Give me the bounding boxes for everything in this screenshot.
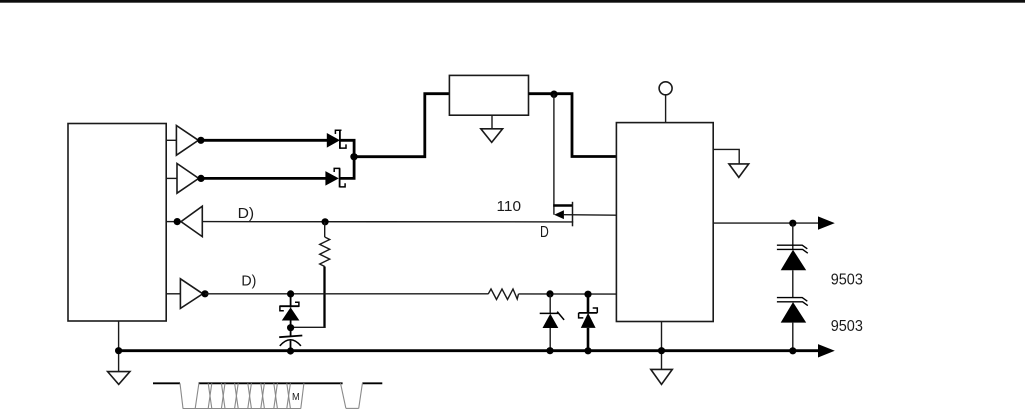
transistor Q2 arrow: [325, 171, 338, 186]
svg-text:9503: 9503: [831, 318, 863, 335]
zener D4 lead top: [587, 294, 590, 313]
node dot D4 on ground rail: [584, 347, 591, 354]
ground under module box: [481, 129, 503, 143]
transistor Q1 lower hook: [340, 144, 346, 148]
zener D4 lead bottom: [587, 328, 590, 351]
node dot A2 output: [197, 175, 204, 182]
wire to node K1: [291, 326, 326, 328]
svg-text:M: M: [292, 391, 300, 403]
node dot output: [789, 220, 796, 227]
wire U2 to right ground: [713, 149, 739, 164]
resistor R1: [320, 237, 330, 267]
waveform top line segment 2: [199, 382, 343, 384]
node J1: [350, 153, 357, 160]
diode D3 cathode bar: [540, 312, 559, 314]
buffer A1: [176, 126, 198, 156]
zener D4 anode triangle: [581, 313, 596, 328]
node dot D3 on ground rail: [546, 347, 553, 354]
node dot at diode D3: [546, 290, 553, 297]
zener Z1 lead bottom: [290, 321, 292, 328]
wire module box to U2 supply pin: [529, 94, 617, 157]
svg-text:9503: 9503: [831, 271, 863, 288]
zener D4 left hook: [579, 313, 584, 318]
ground rail: [119, 349, 819, 352]
wire U1 to buffer A4: [166, 293, 180, 295]
waveform top line segment 3: [362, 382, 382, 384]
wire J2 down to Q3: [553, 94, 555, 215]
wire A4 output net: [205, 293, 489, 295]
svg-text:D): D): [241, 272, 256, 289]
page header rule (top bar): [0, 0, 1025, 3]
resistor R2: [488, 289, 518, 300]
waveform falling edge 3: [341, 383, 346, 408]
wire D6 to ground rail: [792, 323, 794, 351]
node dot rail right: [789, 347, 796, 354]
transistor Q1 bar: [339, 130, 341, 149]
wire module box to ground: [491, 115, 493, 129]
wire U1 to ground rail: [118, 321, 120, 371]
wire Q2 drain to node J1: [340, 157, 355, 178]
waveform falling edge 1: [180, 383, 183, 408]
capacitor C1 curved plate: [280, 340, 301, 346]
node dot at zener D4: [584, 291, 591, 298]
ground left: [108, 372, 130, 385]
wire U1 to buffer A2: [166, 177, 177, 179]
node J2: [550, 91, 557, 98]
node dot A4 output: [201, 290, 208, 297]
waveform bottom line segment 2: [346, 407, 359, 409]
ground under U2: [651, 369, 673, 384]
transistor Q3 top bar: [553, 204, 572, 206]
zener Z1 lead top: [290, 294, 292, 308]
wire A1 to Q1 gate: [201, 139, 327, 142]
diode D3 lead bottom: [549, 328, 551, 351]
waveform rising edge 1: [195, 383, 199, 408]
node dot C1 on ground rail: [287, 347, 294, 354]
node dot rail under U2: [658, 347, 665, 354]
buffer A2: [177, 164, 199, 194]
wire output to D5: [792, 223, 794, 249]
arrow output top: [818, 216, 835, 229]
waveform bottom line segment 1: [183, 408, 301, 410]
wire J1 to module box: [354, 94, 449, 157]
node dot A1 output: [197, 137, 204, 144]
node dot at zener Z1: [287, 290, 294, 297]
terminal circle on U2: [659, 82, 672, 95]
diode D3 lead top: [549, 294, 551, 314]
node dot on gate net: [322, 218, 329, 225]
TVS D5 anode triangle: [781, 250, 807, 271]
node K1: [287, 324, 294, 331]
TVS D6 cathode bars: [777, 298, 807, 302]
wire U2 to ground rail: [661, 322, 663, 370]
zener D4 cathode bar: [579, 312, 598, 314]
wire A2 to Q2 gate: [201, 177, 326, 180]
wire Q1 drain to node J1: [340, 140, 354, 157]
IC U2 (output block): [616, 123, 713, 322]
waveform top line segment 1: [153, 382, 180, 384]
ground right of U2: [729, 164, 749, 178]
node dot rail left: [115, 347, 122, 354]
waveform data crossings: [208, 383, 290, 408]
diode D3 anode triangle: [543, 314, 559, 328]
wire U1 to A3 output: [166, 221, 181, 223]
module box (unlabeled block): [449, 75, 528, 115]
buffer A4: [180, 279, 202, 309]
IC U1 (left driver block): [68, 124, 166, 322]
zener Z1 left hook: [280, 306, 284, 311]
waveform rising edge 2: [301, 383, 304, 408]
wire R2 to U2: [519, 293, 617, 295]
zener Z1 anode triangle: [282, 307, 300, 320]
wire Q3 source to U2: [564, 214, 617, 217]
svg-text:D): D): [238, 205, 255, 222]
arrow output bottom: [818, 344, 835, 357]
TVS D5 cathode bars: [777, 245, 807, 249]
wire U2 output: [713, 222, 818, 224]
resistor R1 lead top: [324, 222, 326, 237]
buffer A3 (receiver, points left): [181, 206, 202, 236]
node dot A3 output: [174, 218, 181, 225]
waveform rising edge 3: [359, 383, 363, 408]
transistor Q1 upper hook: [335, 130, 341, 134]
capacitor C1 lead bottom: [290, 341, 292, 351]
capacitor C1 top plate: [279, 336, 302, 338]
wire R1 bottom: [323, 267, 325, 328]
wire U1 to buffer A1: [166, 139, 176, 141]
zener Z1 right hook: [295, 302, 299, 307]
zener D4 right hook: [593, 308, 598, 313]
wire circle to U2: [665, 95, 667, 123]
transistor Q2 upper hook: [334, 168, 340, 172]
diode D3 cathode tail: [557, 312, 564, 320]
wire D5 to D6: [792, 270, 794, 297]
transistor Q1 arrow: [327, 133, 340, 148]
transistor Q2 bar: [339, 168, 341, 187]
svg-text:110: 110: [497, 198, 522, 215]
transistor Q2 lower hook: [340, 183, 346, 187]
transistor Q3 channel bar: [572, 202, 574, 227]
zener Z1 cathode bar: [280, 305, 299, 307]
capacitor C1 lead top: [290, 328, 292, 337]
wire A3 input line (net to Q3 gate): [202, 221, 573, 223]
svg-text:D: D: [540, 224, 549, 241]
TVS D6 anode triangle: [781, 302, 807, 323]
transistor Q3 arrow: [554, 210, 564, 219]
